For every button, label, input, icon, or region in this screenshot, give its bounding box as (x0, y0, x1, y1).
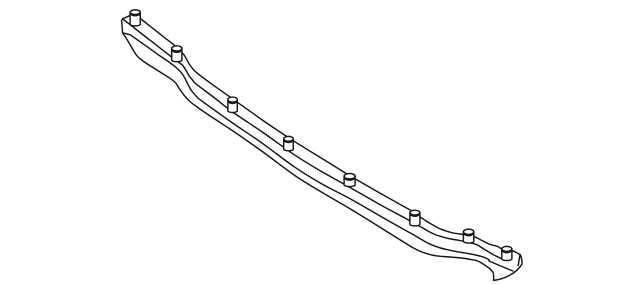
stud 1 top rim (130, 13, 140, 16)
stud 8 body (502, 249, 512, 261)
stud 1 body (130, 12, 140, 26)
stud 3 top rim (228, 101, 237, 104)
stud 7 body (463, 232, 473, 243)
stud 2 body (172, 48, 182, 61)
right end block bottom and cap edge (494, 255, 522, 281)
right end block front-top fold (489, 261, 513, 271)
stud 8 top face (502, 246, 512, 251)
stud 4 top face (284, 136, 294, 141)
stud 5 body (344, 176, 355, 186)
stud 1 top face (130, 10, 140, 15)
stud 5 top rim (344, 177, 354, 180)
rail lower fold edge (130, 35, 489, 261)
right end block cap front fold (518, 255, 520, 265)
stud 6 top rim (410, 214, 419, 217)
stud 7 top rim (464, 233, 474, 236)
stud 2 top face (172, 46, 182, 51)
stud 5 top face (344, 174, 355, 179)
stud 2 top rim (172, 49, 182, 52)
stud 6 body (410, 213, 420, 226)
rail bottom edge (123, 33, 494, 281)
stud 6 top face (410, 210, 420, 215)
stud 3 top face (228, 97, 237, 102)
stud 4 top rim (284, 140, 293, 143)
rail top-back edge (138, 17, 521, 255)
stud 3 body (228, 100, 237, 113)
stud 7 top face (463, 229, 473, 234)
left end plate side face (122, 16, 131, 35)
stud 8 top rim (502, 250, 512, 253)
rail top-front fold edge (123, 19, 502, 259)
stud 4 body (284, 139, 294, 151)
